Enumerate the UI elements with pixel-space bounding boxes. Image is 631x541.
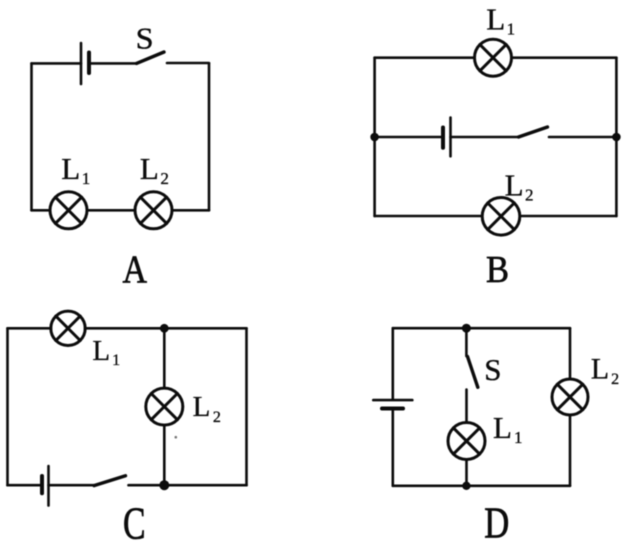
svg-text:C: C: [123, 499, 146, 541]
svg-text:A: A: [123, 247, 148, 291]
svg-text:D: D: [484, 499, 509, 541]
svg-text:S: S: [136, 21, 154, 56]
svg-text:S: S: [484, 352, 501, 387]
svg-text:B: B: [486, 249, 509, 291]
